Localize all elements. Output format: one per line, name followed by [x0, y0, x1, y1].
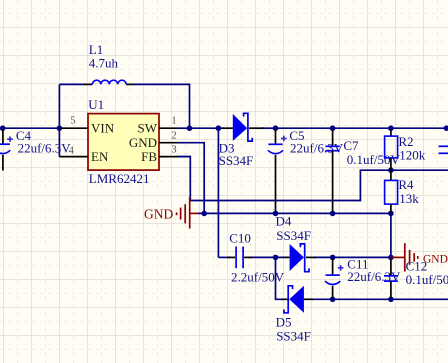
- wire GND pin to ground rail: [177, 143, 204, 214]
- wire C5 to C7: [276, 127, 333, 129]
- node D4 anode junction: [273, 255, 279, 261]
- svg-text:C7: C7: [343, 138, 359, 153]
- node gnd rail at R4: [388, 211, 394, 217]
- wire L1 right lead down to SW: [134, 84, 190, 128]
- capacitor C11 polarized: [325, 259, 344, 298]
- capacitor C5 polarized: [268, 130, 287, 212]
- capacitor C7: [326, 130, 340, 212]
- capacitor C4 (cut at left edge): [0, 130, 13, 171]
- svg-text:EN: EN: [91, 149, 109, 164]
- wire D5 riser: [276, 257, 284, 299]
- svg-text:SS34F: SS34F: [276, 328, 311, 343]
- svg-text:22uf/6.3V: 22uf/6.3V: [290, 141, 344, 156]
- capacitor at right edge (cut): [439, 146, 448, 153]
- node C7 top: [330, 125, 336, 131]
- svg-text:FB: FB: [141, 149, 157, 164]
- svg-text:GND: GND: [144, 207, 173, 222]
- node gnd rail at U1: [201, 211, 207, 217]
- wire input rail left: [0, 127, 60, 129]
- wire C10 row left: [218, 256, 230, 258]
- op-amp U1 (LMR62421 boost IC): [59, 114, 190, 171]
- ground GND power port left: [177, 197, 199, 228]
- wire FB net: [177, 157, 448, 201]
- svg-text:GND: GND: [423, 253, 448, 265]
- node C11 top: [330, 255, 336, 261]
- wire bottom negative rail: [312, 298, 448, 300]
- node SW to C10 tap: [216, 125, 222, 131]
- svg-text:2: 2: [171, 131, 176, 142]
- svg-text:3: 3: [171, 145, 176, 156]
- inductor L1: [84, 80, 134, 84]
- wire D3 cathode to C5: [262, 127, 276, 129]
- node C12 top junction: [388, 255, 394, 261]
- svg-text:0.1uf/50V: 0.1uf/50V: [347, 152, 401, 167]
- svg-text:4.7uh: 4.7uh: [89, 56, 119, 71]
- diode D4 schottky: [283, 244, 316, 272]
- svg-text:0.1uf/50V: 0.1uf/50V: [406, 272, 448, 287]
- wire C7 to R2: [333, 127, 391, 129]
- svg-text:C10: C10: [229, 230, 251, 245]
- svg-text:GND: GND: [129, 135, 157, 150]
- node FB divider junction: [388, 167, 394, 173]
- svg-text:SW: SW: [138, 120, 158, 135]
- node output right edge: [444, 125, 448, 131]
- svg-text:D5: D5: [276, 315, 292, 330]
- svg-text:D4: D4: [276, 213, 292, 228]
- svg-text:R4: R4: [398, 177, 414, 192]
- wire R4 bottom to negative rail: [390, 213, 392, 257]
- svg-text:LMR62421: LMR62421: [89, 171, 150, 186]
- wire C10 riser: [217, 128, 219, 257]
- svg-text:1: 1: [171, 115, 176, 126]
- svg-text:U1: U1: [88, 97, 104, 112]
- node C11 bottom: [330, 297, 336, 303]
- svg-text:SS34F: SS34F: [276, 228, 311, 243]
- wire VIN/EN riser (L1 left down to EN): [59, 84, 84, 156]
- svg-text:22uf/6.3V: 22uf/6.3V: [18, 141, 72, 156]
- ground GND power port right: [391, 243, 418, 271]
- node SW junction: [187, 125, 193, 131]
- resistor R4: [385, 170, 398, 213]
- svg-text:SS34F: SS34F: [219, 153, 254, 168]
- node C12 bottom: [388, 297, 394, 303]
- diode D5 schottky: [281, 286, 313, 313]
- node input at left edge: [0, 125, 6, 131]
- svg-text:2.2uf/50V: 2.2uf/50V: [231, 270, 285, 285]
- capacitor C10: [227, 247, 252, 269]
- wire ground rail: [198, 212, 391, 214]
- svg-text:120k: 120k: [399, 147, 426, 162]
- node gnd rail at C7: [330, 211, 336, 217]
- svg-text:VIN: VIN: [91, 120, 115, 135]
- diode D3 schottky: [222, 113, 264, 141]
- svg-text:5: 5: [70, 115, 75, 126]
- wire R2 to right edge: [391, 127, 447, 129]
- wire D4 cathode rail: [314, 256, 391, 258]
- wire C10 to D4 anode: [249, 256, 284, 258]
- node C5 top: [273, 125, 279, 131]
- node VIN junction: [57, 125, 63, 131]
- node R2 top: [388, 125, 394, 131]
- wire SW rail to D3: [190, 127, 225, 129]
- capacitor C12: [384, 259, 398, 298]
- node gnd rail at C5: [273, 211, 279, 217]
- svg-text:13k: 13k: [399, 191, 419, 206]
- resistor R2: [385, 130, 398, 170]
